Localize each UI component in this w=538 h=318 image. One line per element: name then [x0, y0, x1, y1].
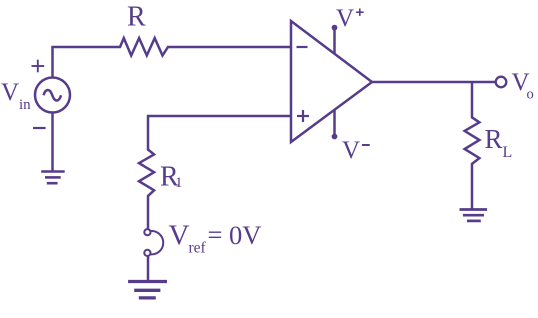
svg-text:=: = — [208, 220, 223, 250]
svg-text:in: in — [19, 97, 31, 113]
svg-text:L: L — [503, 144, 513, 161]
svg-text:V: V — [169, 220, 190, 252]
svg-text:R: R — [485, 124, 503, 154]
svg-text:o: o — [527, 87, 534, 103]
svg-text:R: R — [127, 2, 146, 33]
svg-text:1: 1 — [175, 175, 183, 191]
svg-text:V: V — [336, 5, 354, 32]
svg-text:V: V — [1, 79, 19, 106]
svg-text:V: V — [342, 137, 360, 164]
svg-text:ref: ref — [189, 240, 207, 257]
svg-text:0V: 0V — [229, 220, 261, 250]
